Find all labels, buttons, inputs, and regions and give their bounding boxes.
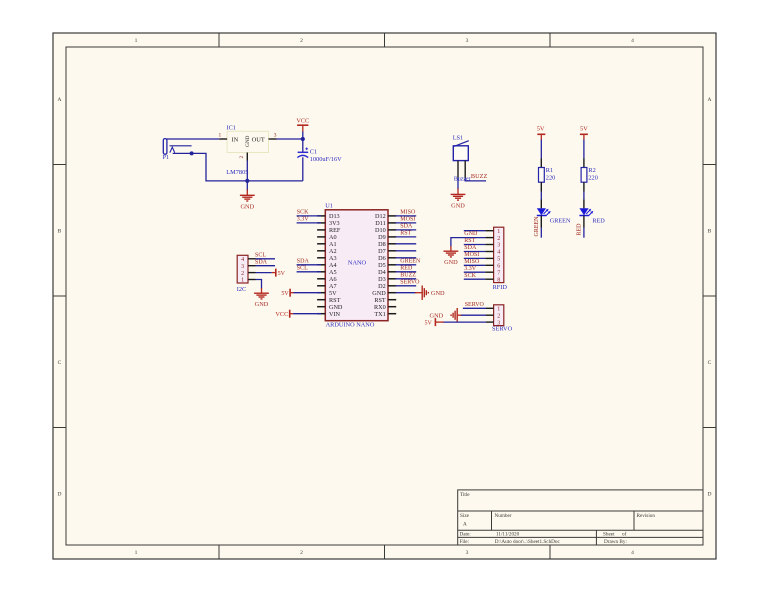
power port 5V (I2C pin2) <box>248 269 286 278</box>
connector I2C <box>237 255 248 292</box>
resistor R2 220 <box>581 167 598 182</box>
svg-text:2: 2 <box>497 236 500 242</box>
svg-text:GND: GND <box>329 304 343 311</box>
wire D11 MOSI <box>396 217 417 223</box>
svg-text:MISO: MISO <box>400 210 416 216</box>
svg-text:I2C: I2C <box>237 286 246 293</box>
svg-text:VCC: VCC <box>296 117 309 124</box>
svg-text:SCK: SCK <box>297 210 309 216</box>
power port VCC (U1 VIN pin) <box>275 310 321 319</box>
power port 5V (R2) <box>580 125 588 139</box>
svg-text:220: 220 <box>588 174 597 181</box>
svg-text:RED: RED <box>577 223 583 236</box>
svg-text:3: 3 <box>241 264 244 270</box>
svg-text:GND: GND <box>444 259 458 266</box>
svg-text:MOSI: MOSI <box>464 252 479 258</box>
net label BUZZ <box>471 173 488 180</box>
zone dividers <box>53 33 716 559</box>
wire LS1 left pin to ground <box>457 161 459 190</box>
svg-text:D: D <box>58 492 62 498</box>
svg-text:IN: IN <box>232 137 239 144</box>
svg-text:D4: D4 <box>378 269 386 276</box>
svg-text:3.3V: 3.3V <box>297 217 310 223</box>
svg-text:D11: D11 <box>375 220 385 227</box>
svg-text:LS1: LS1 <box>453 135 464 142</box>
net label RED (vertical) <box>577 223 583 236</box>
svg-text:A3: A3 <box>329 255 337 262</box>
svg-text:SCL: SCL <box>297 266 308 272</box>
svg-text:8: 8 <box>497 277 500 283</box>
svg-text:GND: GND <box>240 204 254 211</box>
wire RFID pin7 3.3V <box>464 266 494 272</box>
svg-text:GND: GND <box>431 290 445 297</box>
svg-text:11/11/2020: 11/11/2020 <box>496 532 520 538</box>
svg-text:Sheet: Sheet <box>603 532 615 538</box>
svg-text:D12: D12 <box>375 213 386 220</box>
wire D10 SDA <box>396 224 417 230</box>
svg-text:RED: RED <box>592 218 605 225</box>
svg-text:5V: 5V <box>281 291 289 297</box>
connector SERVO <box>492 305 513 333</box>
svg-text:GND: GND <box>430 313 444 320</box>
svg-text:GND: GND <box>245 135 251 146</box>
svg-text:D10: D10 <box>375 227 386 234</box>
svg-text:SDA: SDA <box>255 259 268 265</box>
svg-text:BUZZ: BUZZ <box>400 273 416 279</box>
wire D3 BUZZ <box>396 273 417 279</box>
regulator IC1 LM7805 <box>226 125 268 176</box>
svg-text:D7: D7 <box>378 248 386 255</box>
svg-text:1: 1 <box>497 229 500 235</box>
wire RFID pin6 MISO <box>464 259 494 265</box>
svg-text:SCL: SCL <box>255 252 266 258</box>
wire A5 SCL <box>297 266 321 272</box>
IC U1 ARDUINO NANO body <box>325 202 388 328</box>
svg-text:3V3: 3V3 <box>329 220 340 227</box>
svg-text:VIN: VIN <box>329 311 341 318</box>
power port 5V (U1 5V pin) <box>281 289 321 298</box>
power port 5V (R1) <box>537 125 546 139</box>
svg-text:2: 2 <box>300 38 303 44</box>
IC1 pin 3 <box>269 133 277 139</box>
wire D4 RED <box>396 266 417 272</box>
svg-text:SERVO: SERVO <box>465 302 485 308</box>
svg-text:IC1: IC1 <box>227 125 236 132</box>
svg-text:Date:: Date: <box>460 532 472 538</box>
LED GREEN <box>537 208 571 224</box>
svg-text:RST: RST <box>374 297 386 304</box>
wire P1 pin2 to bottom rail <box>190 151 303 181</box>
svg-text:VCC: VCC <box>275 311 288 318</box>
U1 right pin stubs <box>388 216 396 314</box>
svg-text:BUZZ: BUZZ <box>471 173 488 180</box>
wire I2C pin4 SCL <box>248 252 275 258</box>
svg-text:R2: R2 <box>588 167 595 174</box>
wire IC1 OUT to VCC node <box>277 138 303 140</box>
svg-text:220: 220 <box>546 174 555 181</box>
svg-text:RST: RST <box>400 231 411 237</box>
svg-text:R1: R1 <box>546 167 553 174</box>
wire IC1 GND pin down <box>246 161 248 181</box>
wire RFID pin8 SCK <box>464 273 494 279</box>
sheet background <box>53 33 716 559</box>
LED RED <box>579 208 605 224</box>
svg-text:D6: D6 <box>378 255 386 262</box>
svg-text:D13: D13 <box>329 213 340 220</box>
svg-text:ARDUINO NANO: ARDUINO NANO <box>326 321 375 328</box>
node junction at rail/GND <box>245 179 249 183</box>
svg-text:U1: U1 <box>325 202 333 209</box>
zone labels <box>58 38 712 556</box>
svg-text:5V: 5V <box>580 125 588 132</box>
ground GND (buzzer) <box>451 189 466 210</box>
title block text <box>460 492 656 545</box>
connector RFID <box>493 227 508 291</box>
wire D6 <box>396 257 417 259</box>
wire RFID pin4 SDA <box>464 245 494 251</box>
ground GND sideways (U1 GND pin) <box>396 286 445 300</box>
svg-text:Revision: Revision <box>637 513 656 519</box>
wire below red LED <box>583 216 585 238</box>
net label GREEN (vertical) <box>534 216 540 237</box>
svg-text:LM7805: LM7805 <box>226 169 248 176</box>
svg-text:SERVO: SERVO <box>400 280 420 286</box>
svg-text:1: 1 <box>241 278 244 284</box>
wire 5V to R1 <box>540 140 542 168</box>
svg-text:RST: RST <box>464 238 475 244</box>
svg-text:A5: A5 <box>329 269 337 276</box>
svg-text:B: B <box>58 229 62 235</box>
svg-text:OUT: OUT <box>252 137 265 144</box>
wire I2C pin3 SDA <box>248 259 275 265</box>
svg-text:SDA: SDA <box>464 245 477 251</box>
svg-text:2: 2 <box>497 313 500 319</box>
svg-text:2: 2 <box>241 271 244 277</box>
svg-text:6: 6 <box>497 264 500 270</box>
svg-text:SCK: SCK <box>464 273 476 279</box>
capacitor C1 <box>297 139 342 181</box>
svg-text:7: 7 <box>497 270 500 276</box>
svg-text:3.3V: 3.3V <box>464 266 477 272</box>
svg-text:SERVO: SERVO <box>492 326 513 333</box>
svg-text:3: 3 <box>466 38 469 44</box>
svg-text:1: 1 <box>135 550 138 556</box>
svg-text:1000uF/16V: 1000uF/16V <box>310 156 342 163</box>
svg-text:Title: Title <box>460 492 470 498</box>
wire LS1 right pin to BUZZ net <box>465 161 486 181</box>
node junction VCC/C1 <box>301 137 305 141</box>
svg-text:TX1: TX1 <box>374 311 385 318</box>
svg-text:NANO: NANO <box>348 260 367 267</box>
svg-text:2: 2 <box>300 550 303 556</box>
IC1 pin 1 <box>219 133 228 139</box>
svg-text:5: 5 <box>497 257 500 263</box>
svg-text:GREEN: GREEN <box>550 218 571 225</box>
wire RFID pin3 RST <box>464 238 494 244</box>
svg-text:A4: A4 <box>329 262 337 269</box>
svg-text:5V: 5V <box>424 321 432 327</box>
wire D8 <box>396 243 417 245</box>
wire below green LED <box>540 216 542 238</box>
svg-text:1: 1 <box>135 38 138 44</box>
svg-text:Size: Size <box>460 513 470 519</box>
svg-text:P1: P1 <box>163 154 170 161</box>
svg-text:GND: GND <box>451 203 465 210</box>
svg-text:Number: Number <box>495 513 512 519</box>
svg-text:RX0: RX0 <box>374 304 386 311</box>
buzzer LS1 <box>453 135 471 183</box>
svg-text:D8: D8 <box>378 241 386 248</box>
svg-text:RST: RST <box>329 297 341 304</box>
svg-text:File:: File: <box>460 539 470 545</box>
svg-text:Buzzer: Buzzer <box>454 177 471 183</box>
wire D2 SERVO <box>396 280 421 286</box>
wire D5 GREEN <box>396 259 421 265</box>
svg-text:GREEN: GREEN <box>400 259 421 265</box>
title block <box>458 490 703 545</box>
wire 5V to R2 <box>583 140 585 168</box>
svg-text:5V: 5V <box>278 271 286 277</box>
wire 3V3 3.3V <box>297 217 321 223</box>
svg-text:of: of <box>622 531 627 538</box>
svg-text:D:\Auto door\..\Sheet1.SchDoc: D:\Auto door\..\Sheet1.SchDoc <box>495 539 561 545</box>
svg-text:RFID: RFID <box>493 284 508 291</box>
svg-text:GND: GND <box>372 290 386 297</box>
svg-text:4: 4 <box>631 38 634 44</box>
svg-text:D: D <box>708 492 712 498</box>
U1 left pin names <box>329 213 343 318</box>
wire D9 RST <box>396 231 417 237</box>
wire RFID pin2 GND <box>451 231 494 246</box>
wire P1 pin1 to IC1 IN <box>167 138 219 140</box>
svg-text:C: C <box>58 360 62 366</box>
svg-text:4: 4 <box>631 550 634 556</box>
power port VCC <box>296 117 309 139</box>
svg-text:A: A <box>708 97 712 103</box>
svg-text:A6: A6 <box>329 276 337 283</box>
wire R2 to LED <box>583 182 585 208</box>
svg-text:C1: C1 <box>310 148 317 155</box>
svg-text:D5: D5 <box>378 262 386 269</box>
svg-text:3: 3 <box>497 243 500 249</box>
svg-text:A2: A2 <box>329 248 337 255</box>
svg-text:A: A <box>58 97 62 103</box>
svg-text:C: C <box>708 360 712 366</box>
svg-text:D3: D3 <box>378 276 386 283</box>
svg-text:5V: 5V <box>537 125 545 132</box>
ground GND (I2C pin1) <box>248 280 269 308</box>
svg-text:SDA: SDA <box>297 259 310 265</box>
svg-text:4: 4 <box>241 257 244 263</box>
wire SERVO pin1 <box>463 302 494 308</box>
power port 5V (SERVO pin3) <box>424 318 493 327</box>
wire RFID pin5 MOSI <box>464 252 494 258</box>
U1 left pin stubs <box>317 216 325 314</box>
svg-text:GND: GND <box>464 231 478 237</box>
ground GND (RFID pin2) <box>444 246 459 266</box>
svg-text:B: B <box>708 229 712 235</box>
svg-text:GND: GND <box>255 301 269 308</box>
resistor R1 220 <box>539 167 556 182</box>
svg-text:A1: A1 <box>329 241 337 248</box>
svg-text:MOSI: MOSI <box>400 217 415 223</box>
svg-text:3: 3 <box>466 550 469 556</box>
svg-text:4: 4 <box>497 250 500 256</box>
wire D12 MISO <box>396 210 417 216</box>
ground GND (regulator) <box>240 181 255 211</box>
wire R1 to LED <box>540 182 542 208</box>
U1 right pin names <box>372 213 386 318</box>
svg-text:RED: RED <box>400 266 413 272</box>
svg-text:REF: REF <box>329 227 341 234</box>
svg-text:5V: 5V <box>329 290 337 297</box>
svg-text:Drawn By:: Drawn By: <box>604 539 627 545</box>
wire RFID pin1 <box>464 230 494 232</box>
wire A4 SDA <box>297 259 321 265</box>
connector P1 (DC barrel jack) <box>163 139 192 161</box>
svg-text:GREEN: GREEN <box>534 216 540 237</box>
IC1 pin 2 <box>239 153 247 161</box>
svg-text:MISO: MISO <box>464 259 480 265</box>
svg-text:1: 1 <box>497 307 500 313</box>
svg-text:2: 2 <box>239 156 245 159</box>
svg-text:SDA: SDA <box>400 224 413 230</box>
ground GND sideways (SERVO pin2) <box>430 308 494 322</box>
svg-text:3: 3 <box>274 133 277 139</box>
svg-text:1: 1 <box>219 133 222 139</box>
wire D7 <box>396 250 417 252</box>
svg-text:A: A <box>463 522 467 528</box>
wire D13 SCK <box>297 210 321 216</box>
